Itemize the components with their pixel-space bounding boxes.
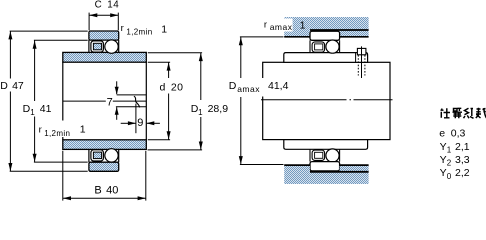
dimension D1 (right): dimension line with arrows (199, 53, 203, 150)
svg-text:r: r (264, 19, 267, 30)
factor row Y1 2,1 (440, 141, 470, 155)
recess feature: inner vertical edge (135, 104, 137, 134)
svg-text:1: 1 (30, 108, 35, 117)
svg-text:1: 1 (80, 123, 86, 135)
svg-text:0: 0 (447, 172, 452, 181)
outer ring (right drawing, top) (310, 31, 340, 40)
svg-text:1: 1 (161, 23, 167, 35)
dimension Damax: label "Damax 41,4" (228, 78, 290, 97)
cage pocket bottom (91, 150, 104, 161)
housing shoulder line bottom-right (340, 164, 369, 166)
svg-text:2,1: 2,1 (455, 141, 470, 153)
cage section (blue) bottom (93, 152, 101, 159)
svg-text:1: 1 (198, 108, 203, 117)
housing top bar: upper band over ring zone (310, 17, 369, 30)
dimension 7: label (107, 97, 113, 109)
housing bottom bar: ring zone block (310, 172, 340, 184)
recess feature: upper edge line (117, 94, 147, 96)
dimension d: extension lines (148, 62, 170, 140)
svg-text:0,3: 0,3 (451, 128, 466, 140)
outer ring side faces (bottom ball row bounds) (89, 149, 119, 162)
housing top bar: right lower block (340, 30, 369, 37)
sleeve groove line (355, 53, 357, 62)
ball top (105, 40, 118, 53)
recess feature: lower edge line (116, 106, 146, 108)
ball (right, top) (326, 40, 339, 53)
svg-text:D 47: D 47 (0, 80, 24, 92)
dimension Damax: extension lines (240, 37, 284, 165)
svg-text:3,3: 3,3 (455, 154, 470, 166)
svg-text:28,9: 28,9 (208, 103, 229, 115)
factor row e 0,3 (439, 128, 465, 140)
outer ring (right drawing, bottom) (310, 162, 340, 171)
svg-text:1,2min: 1,2min (126, 28, 152, 37)
shaft centerline (dash-dot) (261, 99, 393, 101)
outer ring bottom section (89, 162, 119, 171)
factor row Y0 2,2 (440, 167, 470, 181)
outer ring faces (right, bottom) (310, 150, 340, 162)
dimension 9: label (137, 116, 145, 129)
svg-text:r: r (39, 124, 42, 135)
dimension B: dimension line with arrows (63, 196, 146, 200)
shaft (263, 62, 390, 139)
svg-text:7: 7 (107, 97, 113, 109)
svg-text:2,2: 2,2 (455, 167, 470, 179)
dimension D1: dimension line with arrows (33, 40, 37, 162)
housing top bar: left block (284, 17, 310, 37)
svg-text:Y: Y (440, 154, 447, 166)
dimension C: dimension line with outward arrows (89, 13, 118, 17)
svg-text:D: D (229, 80, 237, 92)
outer ring faces (right, top) (310, 40, 340, 52)
svg-text:Y: Y (440, 167, 447, 179)
locking screw axis (361, 46, 363, 78)
cage section (right, bottom) (315, 152, 323, 158)
housing shoulder line top-left (284, 36, 310, 38)
inner ring sleeve (right drawing, bottom) (284, 140, 368, 150)
housing bore line (bottom) (310, 171, 369, 173)
svg-text:r: r (121, 23, 124, 34)
svg-text:2: 2 (447, 159, 452, 168)
dimension 9: dimension line and arrows (121, 121, 160, 125)
svg-text:41: 41 (40, 103, 52, 115)
svg-text:e: e (439, 128, 445, 140)
ball bottom (105, 149, 118, 162)
label r amax 1 (263, 19, 306, 33)
svg-text:d 20: d 20 (160, 82, 184, 94)
cage pocket (right, top) (312, 42, 325, 52)
dimension d: dimension line with arrows (167, 62, 171, 140)
dimension d: label "d 20" (159, 79, 184, 94)
housing bottom bar: right block (340, 165, 369, 184)
dimension Damax: dimension line with arrows (239, 37, 243, 165)
label r 1,2min 1 (top) (121, 23, 168, 37)
locking screw head (357, 48, 366, 54)
label r 1,2min 1 (bottom) with halo (38, 121, 86, 139)
housing shoulder line top-right (340, 36, 369, 38)
locking screw hidden thread lines (dotted) (358, 55, 365, 76)
dimension D1 (right): extension lines (148, 53, 203, 150)
cage section (right, top) (315, 44, 323, 50)
factor row Y2 3,3 (440, 154, 470, 168)
dimension D: label "D 47" (0, 79, 24, 92)
recess feature: middle edge line (interrupted by label 7) (63, 100, 147, 102)
svg-text:C 14: C 14 (95, 0, 120, 11)
svg-text:amax: amax (237, 84, 260, 94)
sleeve bore side faces (63, 62, 147, 140)
dimension 7: arrows (115, 81, 119, 120)
svg-text:1,2min: 1,2min (44, 129, 70, 138)
recess feature: break curve (134, 96, 140, 107)
dimension B: extension lines (63, 151, 146, 201)
svg-text:41,4: 41,4 (268, 80, 289, 92)
outer ring top section (89, 31, 119, 40)
svg-text:amax: amax (270, 22, 293, 32)
cage section (blue) top (93, 43, 101, 50)
dimension D1: extension lines (34, 40, 88, 162)
housing shoulder line bottom-left (284, 164, 310, 166)
dimension C: label "C 14" (95, 0, 120, 11)
inner ring sleeve top section (63, 52, 147, 62)
outer ring side faces (top ball row bounds) (89, 40, 119, 52)
dimension D1: label "D1 41" (22, 102, 53, 117)
dimension D: dimension line with arrows (8, 31, 12, 171)
svg-text:1: 1 (300, 19, 306, 31)
cage pocket (right, bottom) (312, 150, 325, 160)
ball (right, bottom) (326, 149, 339, 162)
inner ring sleeve (right drawing, top) (284, 53, 368, 63)
svg-text:Y: Y (440, 141, 447, 153)
cage pocket top (91, 41, 104, 52)
svg-text:B 40: B 40 (94, 184, 118, 196)
housing bore line (top) (310, 29, 369, 31)
housing bottom bar: left block (284, 165, 310, 184)
dimension D: extension lines (10, 31, 88, 171)
title 计算系数 (drawn glyphs) (441, 108, 486, 119)
dimension C: extension lines (89, 13, 118, 31)
dimension B: label "B 40" (94, 184, 118, 196)
svg-text:1: 1 (447, 145, 452, 154)
inner ring sleeve bottom section (63, 140, 147, 150)
svg-text:9: 9 (137, 117, 143, 129)
dimension D1 (right): label "D1 28,9" (190, 101, 230, 117)
